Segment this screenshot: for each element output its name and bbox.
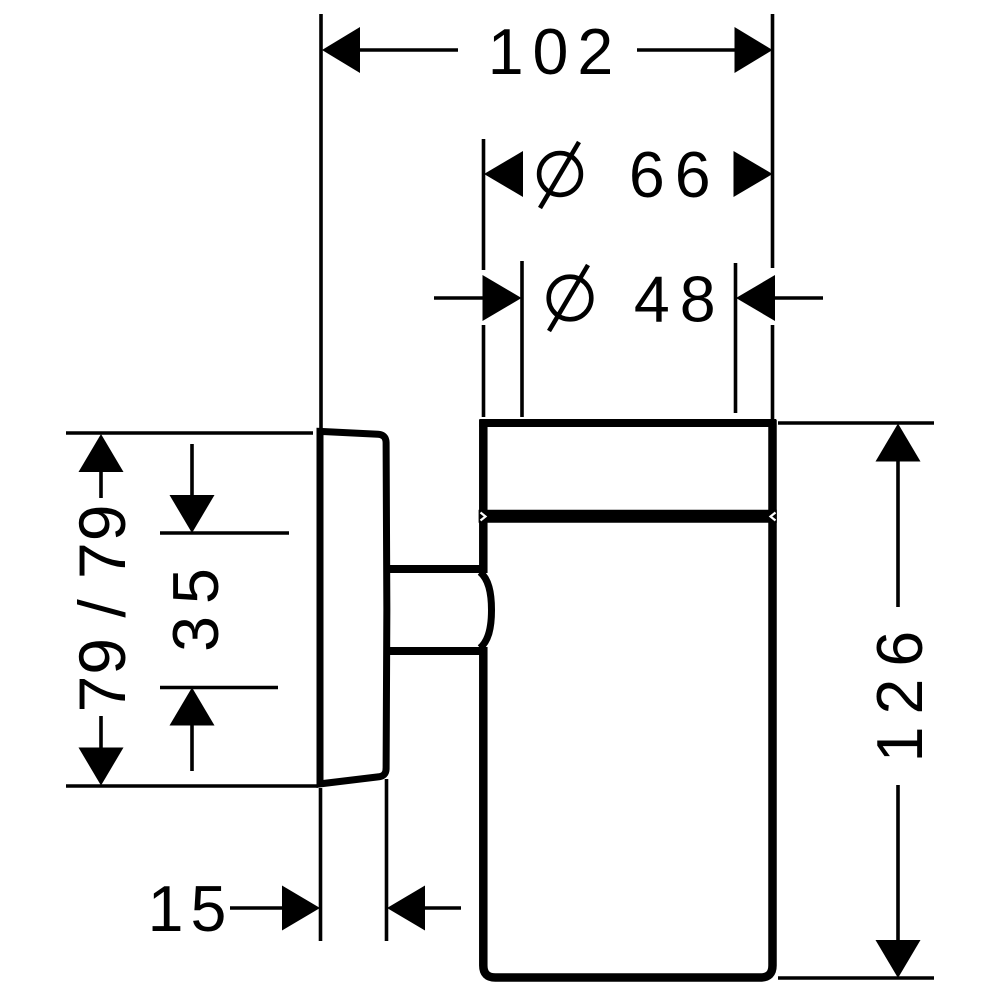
- svg-text:15: 15: [148, 873, 234, 945]
- svg-text:66: 66: [629, 139, 721, 211]
- 79/79: [79, 434, 124, 472]
- svg-text:79 / 79: 79 / 79: [65, 504, 139, 713]
- arm bottom edge: [388, 647, 481, 655]
- rim bottom band: [479, 510, 777, 523]
- 126: [876, 424, 921, 462]
- svg-text:35: 35: [160, 556, 232, 652]
- 79/79 extension lines: [66, 431, 313, 435]
- 35 dimension verticals: [190, 444, 194, 771]
- Ø66: [484, 151, 523, 197]
- 102: [322, 27, 360, 73]
- 35: [170, 495, 215, 533]
- 102 dimension line: [358, 48, 736, 52]
- cup left edge upper: [479, 420, 488, 573]
- arm end bulge: [480, 572, 492, 648]
- Ø48: [483, 275, 522, 321]
- cup left lower + bottom + right edge: [483, 420, 772, 978]
- vertical extension lines: [319, 14, 323, 429]
- 15 dimension line: [230, 906, 461, 910]
- small white join-nicks on rim band ends: [481, 513, 776, 521]
- Ø48 tails: [434, 296, 823, 300]
- 126 extension lines: [778, 421, 934, 425]
- 15: [282, 886, 320, 931]
- svg-text:126: 126: [864, 619, 936, 763]
- 35 extension lines: [160, 531, 289, 535]
- 79/79 dimension verticals: [99, 471, 103, 748]
- wall plate: [320, 431, 387, 784]
- arm top edge: [388, 565, 481, 573]
- 126 dimension verticals: [896, 461, 900, 940]
- svg-text:48: 48: [634, 264, 726, 336]
- svg-text:102: 102: [488, 16, 623, 88]
- cup top edge: [479, 419, 776, 427]
